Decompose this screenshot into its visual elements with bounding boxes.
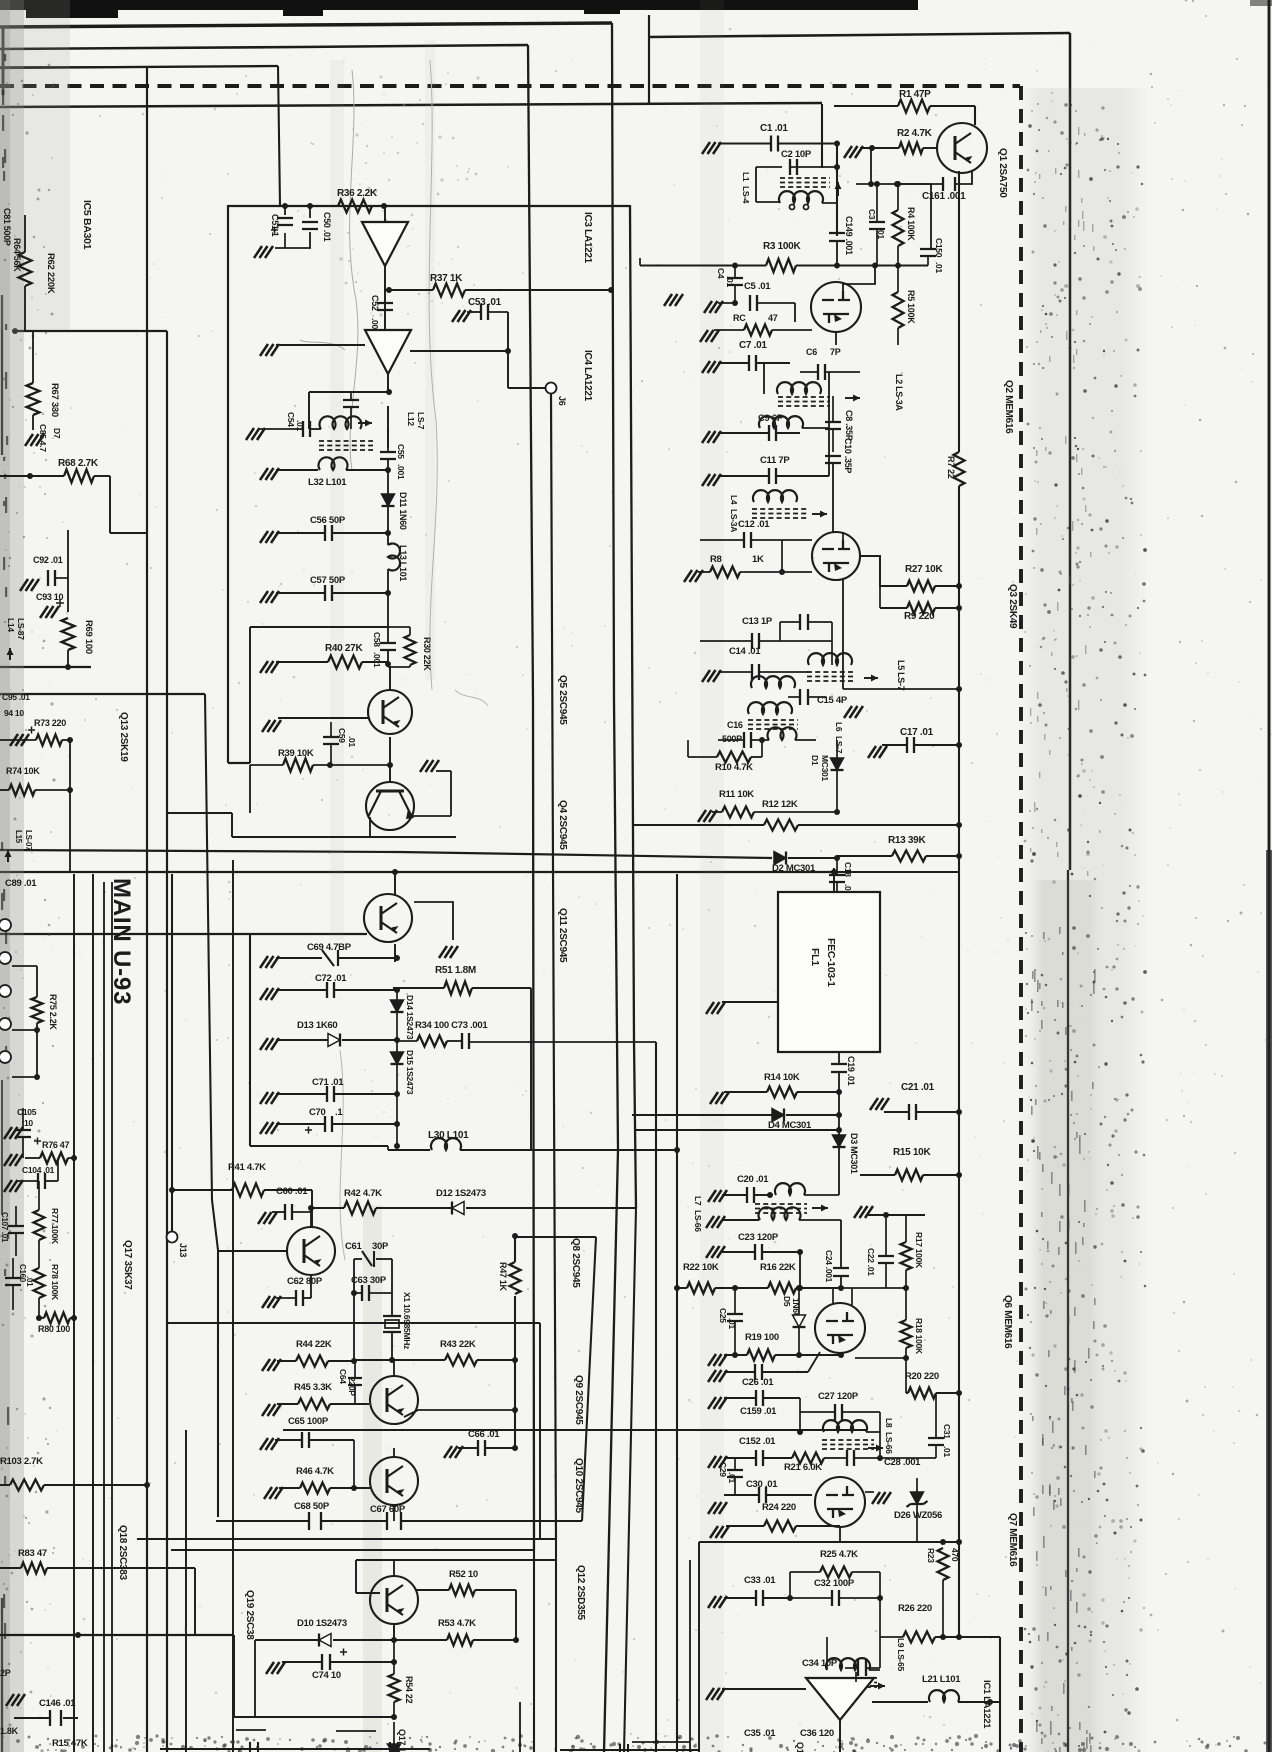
ground (260, 468, 279, 480)
capacitor C54 mid (343, 400, 359, 407)
wire rail to R4/C3 (856, 183, 931, 185)
wire (234, 1716, 394, 1718)
wire bottom of diode chain (396, 1094, 398, 1146)
svg-text:R5 100K: R5 100K (906, 290, 916, 324)
wire (194, 1568, 196, 1635)
svg-text:D4 MC301: D4 MC301 (768, 1120, 812, 1131)
resistor R5 (893, 292, 904, 328)
svg-text:J13: J13 (178, 1243, 188, 1257)
ground (254, 246, 273, 258)
inductor L32 (276, 469, 318, 471)
svg-text:R2 4.7K: R2 4.7K (897, 128, 933, 139)
svg-text:Q12 2SD355: Q12 2SD355 (575, 1565, 586, 1621)
transistor Q7 dual-gate FET (815, 1477, 865, 1527)
resistor R47 (510, 1262, 521, 1294)
svg-text:R44 22K: R44 22K (296, 1339, 332, 1350)
wire (519, 1702, 521, 1752)
svg-text:Q3 2SK49: Q3 2SK49 (1007, 584, 1018, 629)
svg-text:C29: C29 (718, 1462, 728, 1477)
svg-text:LS-7: LS-7 (834, 736, 844, 754)
wire (146, 67, 148, 1752)
wire left verticals from bus (73, 874, 75, 1752)
wire filter right rail (828, 372, 830, 476)
svg-text:C59: C59 (337, 728, 347, 743)
wire (1069, 33, 1072, 870)
svg-text:L7: L7 (693, 1196, 703, 1206)
wire Q10 emitter (393, 1505, 395, 1521)
svg-text:R103 2.7K: R103 2.7K (0, 1456, 43, 1467)
svg-text:C4: C4 (716, 268, 726, 279)
wire (2, 26, 5, 95)
svg-text:R18 100K: R18 100K (914, 1318, 924, 1355)
wire (321, 1520, 387, 1522)
svg-text:R41 4.7K: R41 4.7K (228, 1162, 266, 1173)
svg-text:IC4 LA1221: IC4 LA1221 (582, 350, 593, 402)
scan artifact: top black bars (0, 0, 918, 10)
svg-text:C53 .01: C53 .01 (468, 297, 502, 308)
svg-text:C22 .01: C22 .01 (866, 1248, 876, 1276)
svg-text:D2 MC301: D2 MC301 (772, 863, 816, 874)
transistor Q2 dual-gate FET (811, 282, 861, 332)
svg-text:R27 10K: R27 10K (905, 564, 943, 575)
wire (634, 1129, 839, 1131)
svg-text:C85 4.7: C85 4.7 (38, 424, 48, 452)
resistor R54 (389, 1674, 400, 1702)
wire (0, 850, 772, 858)
svg-text:C81 500P: C81 500P (2, 208, 12, 246)
wire (393, 1722, 395, 1744)
svg-text:C74 10: C74 10 (312, 1670, 341, 1681)
resistor R62 (19, 252, 32, 286)
op-amp IC4 second amp (365, 330, 411, 374)
svg-text:R14 10K: R14 10K (764, 1072, 800, 1083)
svg-text:L13 L101: L13 L101 (398, 545, 408, 581)
wire (249, 765, 251, 813)
wire (837, 871, 959, 873)
svg-text:R40 27K: R40 27K (325, 643, 363, 654)
svg-text:2P: 2P (0, 1668, 11, 1678)
wire Q2 source (835, 331, 837, 345)
wire (822, 202, 837, 204)
svg-text:Q5 2SC945: Q5 2SC945 (557, 675, 568, 725)
svg-text:.01: .01 (25, 1276, 34, 1287)
wire Q11 box (249, 934, 251, 1146)
transistor Q4 rotated (366, 782, 414, 830)
svg-text:R19 100: R19 100 (745, 1332, 779, 1343)
svg-text:C63 30P: C63 30P (351, 1275, 387, 1286)
svg-text:Q6 MEM616: Q6 MEM616 (1002, 1295, 1013, 1349)
svg-text:R46 4.7K: R46 4.7K (296, 1466, 334, 1477)
svg-text:X1 10.6985MHz: X1 10.6985MHz (402, 1292, 412, 1349)
svg-text:C62 80P: C62 80P (287, 1276, 323, 1287)
svg-text:C146 .01: C146 .01 (39, 1698, 76, 1709)
wire Q12 collector rail (356, 1559, 556, 1561)
resistor R30 (405, 635, 416, 665)
wire (232, 860, 234, 1752)
svg-text:D5: D5 (782, 1296, 792, 1307)
svg-text:D3 MC301: D3 MC301 (849, 1133, 859, 1174)
svg-text:D12 1S2473: D12 1S2473 (436, 1188, 486, 1199)
ground (702, 142, 721, 154)
svg-text:R52 10: R52 10 (449, 1569, 478, 1580)
svg-text:R80 100: R80 100 (38, 1324, 70, 1334)
svg-text:C24 .001: C24 .001 (824, 1250, 834, 1283)
svg-text:500P: 500P (722, 734, 742, 744)
wire oscillator rail (354, 1359, 445, 1361)
wire (228, 205, 630, 207)
wire from J6 down (551, 394, 556, 1539)
wire main vertical rail right x=959 (958, 171, 960, 452)
op-amp IC3 first amp (362, 222, 408, 266)
svg-text:C89 .01: C89 .01 (5, 878, 37, 889)
wire (227, 205, 229, 763)
svg-text:FEC-103-1: FEC-103-1 (825, 938, 837, 987)
svg-text:R76 47: R76 47 (42, 1140, 70, 1150)
scan noise wash left margin (0, 0, 24, 1752)
svg-text:C1 .01: C1 .01 (760, 123, 788, 134)
svg-text:R22 10K: R22 10K (683, 1262, 719, 1273)
resistor R4 (893, 210, 904, 246)
svg-text:L14: L14 (6, 618, 16, 632)
svg-text:C2 10P: C2 10P (781, 149, 812, 160)
wire (528, 45, 534, 1550)
capacitor C55 (380, 452, 396, 459)
svg-text:LS-66: LS-66 (693, 1210, 703, 1232)
wire base (218, 1250, 287, 1252)
resistor R69 (62, 618, 75, 650)
svg-text:C64: C64 (338, 1369, 348, 1384)
svg-text:C23 120P: C23 120P (738, 1232, 779, 1243)
svg-text:Q4 2SC945: Q4 2SC945 (557, 800, 568, 850)
wire Q1 emitter to rail (959, 166, 972, 171)
svg-text:94 10: 94 10 (4, 708, 24, 718)
winding L7 top (775, 1183, 805, 1195)
svg-text:MC301: MC301 (820, 755, 830, 781)
boundary dashed line vertical (1019, 86, 1023, 1752)
svg-text:C65 100P: C65 100P (288, 1416, 329, 1427)
ground (706, 1002, 725, 1014)
svg-text:C149 .001: C149 .001 (844, 216, 854, 255)
svg-text:R15 10K: R15 10K (893, 1147, 931, 1158)
wire (999, 1637, 1001, 1752)
svg-text:R51 1.8M: R51 1.8M (435, 965, 476, 976)
svg-text:FL1: FL1 (809, 948, 821, 966)
svg-text:Q8 2SC945: Q8 2SC945 (570, 1238, 581, 1288)
svg-text:D10 1S2473: D10 1S2473 (297, 1618, 347, 1629)
svg-text:L32 L101: L32 L101 (308, 477, 347, 488)
wire Q6 gates (832, 1288, 834, 1304)
svg-text:R8: R8 (710, 554, 722, 565)
wire (275, 247, 311, 249)
wire (859, 1174, 861, 1176)
boundary dashed line horizontal (0, 84, 1020, 88)
inductor L12 with core (320, 416, 362, 429)
svg-text:R69 100: R69 100 (83, 620, 94, 654)
svg-text:R83 47: R83 47 (18, 1548, 47, 1559)
wire bus (171, 1549, 534, 1551)
svg-text:L21 L101: L21 L101 (922, 1674, 961, 1685)
svg-text:C92 .01: C92 .01 (33, 555, 63, 565)
crystal X1 (383, 1315, 401, 1317)
ground (664, 294, 683, 306)
svg-text:7P: 7P (830, 347, 841, 357)
second winding L5 (751, 676, 795, 688)
svg-text:LS-87: LS-87 (16, 618, 26, 640)
svg-text:C33 .01: C33 .01 (744, 1575, 776, 1586)
wire (410, 350, 508, 352)
svg-text:R47 1K: R47 1K (498, 1262, 508, 1292)
wire (520, 1729, 840, 1731)
capacitor C52 (377, 303, 393, 310)
wire Q5 emitter to Q4 base (389, 737, 391, 782)
svg-text:C26 .01: C26 .01 (742, 1377, 774, 1388)
capacitor C150 (920, 249, 936, 256)
svg-text:R3 100K: R3 100K (763, 241, 801, 252)
svg-text:.001: .001 (396, 464, 406, 480)
wire Q8 emitter to rail (404, 1410, 515, 1417)
svg-text:.01: .01 (942, 1446, 952, 1457)
svg-text:R11 10K: R11 10K (719, 789, 754, 800)
svg-text:C72 .01: C72 .01 (315, 973, 347, 984)
svg-text:C11 7P: C11 7P (760, 455, 790, 466)
ground (262, 720, 281, 732)
svg-text:D1: D1 (810, 755, 820, 766)
svg-text:LS-7: LS-7 (416, 412, 426, 430)
wire (228, 762, 250, 764)
transistor Q5 (368, 690, 412, 734)
svg-text:R53 4.7K: R53 4.7K (438, 1618, 476, 1629)
svg-text:J6: J6 (557, 396, 567, 406)
svg-text:Q2 MEM616: Q2 MEM616 (1003, 380, 1014, 434)
svg-text:RC: RC (733, 313, 746, 323)
wire bus (137, 1538, 556, 1540)
scan streak vertical center (700, 0, 724, 1752)
wire (401, 1520, 582, 1522)
svg-text:R13 39K: R13 39K (888, 835, 926, 846)
svg-text:C68 50P: C68 50P (294, 1501, 330, 1512)
ground (844, 706, 863, 718)
svg-text:.1: .1 (335, 1107, 343, 1118)
svg-text:L8: L8 (884, 1418, 894, 1428)
wire box bottom (232, 836, 456, 838)
wire (0, 45, 528, 49)
second winding L2 (759, 416, 803, 428)
svg-text:C50 .01: C50 .01 (322, 212, 332, 242)
wire (387, 374, 389, 392)
wire (639, 258, 641, 266)
svg-text:C34 10P: C34 10P (802, 1658, 838, 1669)
wire Q6 source (855, 1357, 906, 1359)
svg-text:Q7 MEM616: Q7 MEM616 (1007, 1513, 1018, 1567)
connector J13 (167, 1232, 178, 1243)
wire (15, 330, 167, 332)
wire (676, 874, 678, 1752)
wire (833, 868, 835, 892)
svg-text:C21 .01: C21 .01 (901, 1082, 935, 1093)
wire Q7 source down (839, 1527, 841, 1542)
wire Q11 emitter (394, 944, 396, 962)
wire (0, 23, 612, 27)
wire opamp output (839, 1720, 841, 1752)
wire bus y=1542 (699, 1541, 959, 1543)
svg-text:R74 10K: R74 10K (6, 766, 40, 776)
svg-text:47: 47 (768, 313, 778, 323)
svg-text:.01: .01 (934, 262, 944, 273)
svg-text:D15 1S2473: D15 1S2473 (405, 1050, 415, 1095)
svg-text:R24 220: R24 220 (762, 1502, 796, 1513)
svg-text:Q17 1: Q17 1 (795, 1742, 805, 1752)
wire collector (310, 1208, 312, 1227)
diode D15 (391, 1052, 404, 1064)
svg-text:C159 .01: C159 .01 (740, 1406, 777, 1417)
wire (0, 103, 822, 107)
svg-text:L1: L1 (741, 172, 751, 182)
wire (630, 205, 636, 1208)
wire (278, 66, 280, 205)
wire Q2 drain (843, 266, 875, 292)
svg-text:D26 WZ056: D26 WZ056 (894, 1510, 942, 1521)
svg-text:C56 50P: C56 50P (310, 515, 346, 526)
svg-text:Q19 2SC38: Q19 2SC38 (244, 1590, 255, 1640)
svg-text:R16 22K: R16 22K (760, 1262, 796, 1273)
resistor R75 (12, 965, 37, 967)
svg-text:R9 220: R9 220 (904, 611, 935, 622)
ground Q4 (420, 760, 439, 772)
svg-text:R17 100K: R17 100K (914, 1232, 924, 1269)
svg-text:C55: C55 (396, 444, 406, 459)
capacitor C50 (307, 203, 313, 209)
svg-text:IC5 BA301: IC5 BA301 (81, 200, 93, 250)
ground (4, 1127, 23, 1139)
wire (1067, 870, 1069, 1752)
wire Q10 collector (393, 1448, 395, 1457)
diode D14 (391, 1000, 404, 1012)
svg-text:1.8K: 1.8K (0, 1726, 19, 1736)
svg-text:R4 100K: R4 100K (906, 207, 916, 241)
svg-text:C20 .01: C20 .01 (737, 1174, 769, 1185)
wire opamp top links (855, 1672, 857, 1682)
svg-text:LS-66: LS-66 (884, 1432, 894, 1454)
diode D17 partial (388, 1744, 401, 1752)
svg-text:R36 2.2K: R36 2.2K (337, 188, 378, 199)
svg-text:L6: L6 (834, 722, 844, 732)
svg-text:C3: C3 (867, 209, 877, 220)
svg-text:R10 4.7K: R10 4.7K (715, 762, 753, 773)
wire (69, 740, 71, 872)
svg-text:C30 .01: C30 .01 (746, 1479, 778, 1490)
svg-text:10: 10 (24, 1118, 33, 1128)
diode D11 (382, 494, 395, 506)
transistor Q10 (370, 1457, 418, 1505)
wire (649, 33, 1070, 37)
svg-text:R45 3.3K: R45 3.3K (294, 1382, 332, 1393)
wire (0, 933, 367, 935)
svg-text:R78 100K: R78 100K (50, 1264, 60, 1301)
svg-text:C51 1: C51 1 (270, 214, 280, 237)
resistor R18 (901, 1320, 912, 1348)
wire (67, 530, 69, 612)
ground (260, 344, 279, 356)
svg-text:C105: C105 (17, 1107, 37, 1117)
svg-text:L9 LS-65: L9 LS-65 (896, 1638, 906, 1672)
svg-text:C54: C54 (286, 412, 296, 427)
svg-text:C61: C61 (345, 1241, 363, 1252)
svg-text:R62 220K: R62 220K (45, 253, 56, 294)
scan wrinkle squiggles (350, 70, 358, 470)
wire bus to oscillator (167, 1322, 540, 1324)
svg-text:470: 470 (950, 1548, 960, 1562)
svg-text:L4: L4 (729, 495, 739, 505)
svg-text:R67 330: R67 330 (49, 383, 60, 417)
svg-text:IC1 LA1221: IC1 LA1221 (981, 1680, 992, 1729)
svg-text:.001: .001 (372, 652, 382, 668)
svg-text:C8 .35P: C8 .35P (844, 410, 854, 441)
diode D3 (833, 1135, 846, 1147)
wire (205, 694, 218, 1517)
svg-text:R26 220: R26 220 (898, 1603, 932, 1614)
svg-text:C16: C16 (727, 720, 743, 730)
winding L7 bottom (706, 1216, 725, 1228)
svg-text:R15 47K: R15 47K (52, 1738, 88, 1749)
small coil (768, 727, 797, 740)
wire (393, 1560, 395, 1576)
wire (217, 1250, 219, 1517)
svg-text:.01: .01 (347, 736, 357, 747)
svg-text:Q11 2SC945: Q11 2SC945 (557, 908, 568, 963)
svg-text:IC3 LA1221: IC3 LA1221 (582, 212, 593, 264)
svg-text:R12 12K: R12 12K (762, 799, 798, 810)
wire Q3 top to filter (842, 532, 844, 540)
amplifier box Q5 (250, 626, 388, 628)
svg-text:C36 120: C36 120 (800, 1728, 834, 1739)
svg-text:Q13 2SK19: Q13 2SK19 (118, 712, 129, 762)
wire (800, 1287, 841, 1289)
scan speckle dots (1101, 135, 1103, 137)
svg-text:R23: R23 (926, 1548, 936, 1563)
wire (1268, 0, 1271, 1752)
resistor R67 (27, 383, 40, 415)
wire (0, 693, 205, 695)
svg-text:R42 4.7K: R42 4.7K (344, 1188, 382, 1199)
svg-text:D14 1S2473: D14 1S2473 (405, 995, 415, 1040)
svg-text:C150: C150 (934, 238, 944, 258)
wire Q11 collector (394, 872, 396, 896)
resistor R78 (34, 1268, 45, 1298)
svg-text:R43 22K: R43 22K (440, 1339, 476, 1350)
svg-text:C12 .01: C12 .01 (738, 519, 770, 530)
svg-text:R77 100K: R77 100K (50, 1208, 60, 1245)
ground (25, 434, 44, 446)
resistor R77 (34, 1210, 45, 1240)
ground (706, 1688, 725, 1700)
svg-text:R21 6.0K: R21 6.0K (784, 1462, 822, 1473)
wire (166, 331, 168, 1752)
svg-text:C13 1P: C13 1P (742, 616, 773, 627)
svg-text:C152 .01: C152 .01 (739, 1436, 776, 1447)
wire (387, 406, 389, 448)
capacitor C51 electrolytic (282, 203, 288, 209)
transistor Q11 (364, 894, 412, 942)
svg-text:C35 .01: C35 .01 (744, 1728, 776, 1739)
wire vertical x=837 top (821, 104, 823, 168)
svg-text:L15: L15 (14, 830, 23, 844)
wire Q3 gate (781, 540, 783, 572)
resistor R17 (901, 1242, 912, 1270)
wire (843, 688, 959, 690)
wire bottom left bus (0, 1634, 234, 1636)
transistor Q1 (937, 123, 987, 173)
svg-text:L12: L12 (406, 412, 416, 426)
